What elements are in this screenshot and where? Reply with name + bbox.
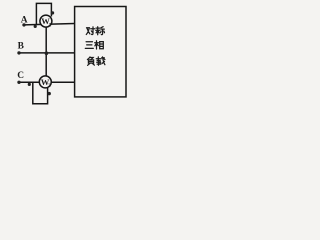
svg-text:B: B: [18, 42, 24, 52]
svg-text:A: A: [21, 16, 28, 26]
svg-text:C: C: [17, 71, 24, 81]
svg-text:2: 2: [48, 83, 51, 89]
svg-text:1: 1: [49, 22, 52, 28]
